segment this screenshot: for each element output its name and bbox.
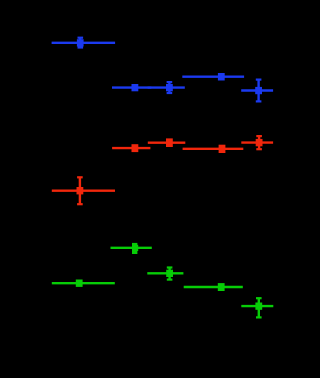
red data point R1 (52, 177, 115, 204)
red data point R2 (112, 145, 150, 152)
blue data point B3 (148, 82, 185, 93)
blue data point B2 (112, 85, 151, 91)
green data point G2 (147, 267, 183, 279)
blue data point B5 (241, 80, 273, 102)
blue data point B4 (182, 74, 244, 81)
red data point R3 (148, 139, 186, 147)
red data point R5 (241, 136, 273, 149)
green data point G5 (241, 298, 273, 317)
green data point G3 (52, 280, 115, 286)
blue data point B1 (52, 38, 116, 48)
green data point G1 (111, 243, 152, 254)
green data point G4 (184, 284, 243, 291)
red data point R4 (183, 145, 244, 152)
